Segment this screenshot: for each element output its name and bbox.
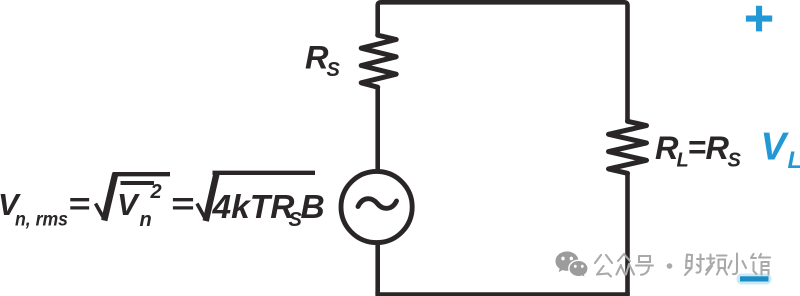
svg-text:V: V [117, 187, 140, 222]
guan [751, 254, 770, 275]
pin [706, 255, 727, 275]
svg-text:4kTR: 4kTR [212, 189, 295, 226]
resistor RL [609, 121, 647, 173]
formula radical sign 2 [197, 173, 315, 221]
source VS circle [341, 171, 412, 242]
label RS value [305, 40, 341, 82]
resistor RS [361, 35, 396, 87]
hao [636, 256, 653, 275]
wire source bottom to bottom-left corner [375, 242, 380, 294]
wire bottom: left to right [375, 292, 629, 296]
label VL (blue) [761, 126, 800, 175]
wire RL bottom to bottom-right corner [625, 173, 630, 295]
formula Vn,rms = sqrt(mean Vn^2) = sqrt(4kTRsB) [0, 181, 325, 231]
svg-text:n: n [140, 209, 152, 231]
wire top loop: RS top to RL top [378, 2, 628, 121]
svg-text:V: V [761, 126, 790, 169]
formula radical sign 1 [96, 174, 171, 221]
svg-text:R: R [655, 130, 679, 166]
svg-text:=: = [68, 186, 90, 221]
polarity plus mark [746, 6, 772, 32]
svg-text:S: S [327, 59, 341, 81]
xiao [729, 254, 747, 275]
svg-text:=: = [688, 129, 707, 165]
svg-text:S: S [728, 150, 742, 172]
zhong [617, 254, 635, 275]
formula overline mean bar [121, 181, 155, 185]
svg-text:=: = [171, 186, 195, 221]
svg-text:B: B [301, 189, 325, 226]
watermark wechat icon [556, 252, 589, 278]
middle dot [667, 263, 673, 269]
polarity minus mark with glow [737, 274, 772, 285]
gong [595, 255, 612, 277]
svg-text:R: R [305, 40, 329, 76]
watermark text: gongzhonghao · shepin xiaoguan (vector strokes) [595, 254, 770, 277]
source VS sine symbol [358, 199, 397, 209]
svg-text:R: R [706, 130, 730, 166]
label RL=RS value [655, 129, 742, 172]
svg-text:n, rms: n, rms [15, 210, 68, 231]
wire RS bottom to source top [375, 87, 380, 171]
she [685, 255, 704, 276]
svg-text:L: L [788, 147, 800, 174]
